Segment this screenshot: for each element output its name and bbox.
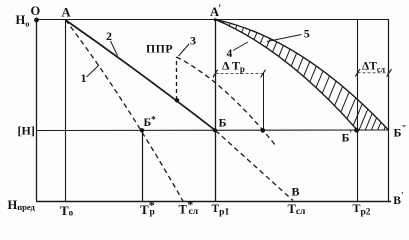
svg-text:сл: сл (189, 207, 199, 217)
svg-text:3: 3 (190, 34, 196, 48)
node dot at origin H0 (34, 18, 39, 23)
curve 2 solid degradation line A to B (66, 20, 216, 131)
leader line for label 1 (87, 65, 100, 77)
svg-text:2: 2 (106, 29, 112, 43)
svg-text:Т: Т (179, 203, 188, 217)
leader line for label 4 (233, 42, 248, 51)
[H] admissible level horizontal line (36, 129, 388, 132)
dTp dimension line with slanted tick ends (216, 73, 264, 75)
vertical line at Tp2 (357, 20, 359, 202)
node dot B (213, 128, 217, 132)
vertical line at dTp right edge down to dot (263, 73, 265, 131)
dashed line B to V (service without repair) (216, 131, 294, 201)
vertical line at T0 through A (65, 20, 67, 202)
curve 4 lower boundary of scatter band A' to B' (216, 20, 358, 130)
svg-text:В: В (292, 185, 300, 199)
curve 3 dashed degradation after repair (177, 57, 277, 146)
svg-text:А: А (62, 6, 71, 20)
curve 3 dashed vertical restoration segment (176, 57, 178, 100)
hatching of scatter band between curves 4 and 5 (223, 21, 385, 130)
leader line for label 5 (267, 35, 302, 42)
node dot B' (354, 128, 359, 133)
dTsl dimension line with slanted tick ends (358, 72, 390, 74)
curve 5 upper boundary of scatter band A' to B'' (216, 20, 389, 130)
svg-text:5: 5 (304, 27, 310, 41)
svg-text:р: р (150, 208, 155, 218)
svg-text:[Н]: [Н] (18, 124, 35, 138)
leader line for label 3 (179, 44, 190, 56)
svg-text:О: О (31, 4, 41, 18)
leader line for label 2 (111, 41, 118, 56)
vertical line at Tp* below B* (142, 131, 144, 202)
node dot B* (140, 128, 144, 132)
bottom horizontal axis (T axis, Hpred level) (36, 201, 391, 203)
svg-text:Б: Б (219, 116, 227, 130)
node dot at dTp lower end (261, 128, 266, 133)
svg-text:ППР: ППР (146, 43, 173, 56)
curve 1 dashed fast degradation A to Tsl* (66, 20, 184, 201)
vertical line at Tp1 through A' (215, 20, 217, 202)
node dot A' (214, 18, 217, 21)
left vertical axis (H axis) (36, 20, 38, 202)
node dot on curve 2 at start of curve 3 (175, 98, 179, 102)
top horizontal line (H0 level) (36, 19, 389, 21)
svg-text:Т: Т (140, 202, 149, 217)
svg-text:1: 1 (81, 71, 87, 85)
right border vertical line (388, 20, 390, 202)
